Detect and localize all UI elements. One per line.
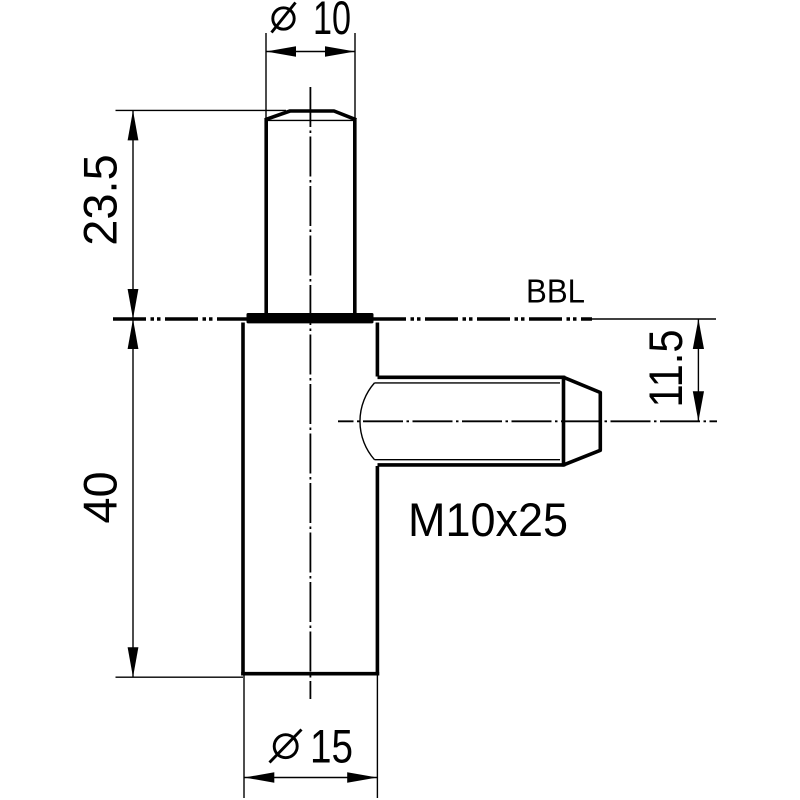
- dimension D15: diameter symbol: [270, 730, 302, 763]
- dimension 40: arrow up at BBL: [128, 319, 139, 349]
- dimension D10: dimension line: [266, 51, 355, 53]
- pin body (top cylinder D10): [266, 119, 355, 314]
- dimension 23.5: arrow up: [128, 110, 139, 140]
- svg-text:40: 40: [74, 471, 127, 523]
- dimension 11.5: dimension line: [697, 319, 699, 421]
- dimension D15: arrow right: [347, 772, 377, 782]
- vertical centerline (pin axis): [309, 87, 311, 699]
- svg-text:23.5: 23.5: [74, 154, 127, 245]
- dimension 23.5: extension line top: [116, 109, 287, 111]
- dimension 40: extension line bottom: [116, 676, 244, 678]
- horizontal centerline (stud axis): [338, 420, 717, 422]
- svg-text:11.5: 11.5: [639, 330, 692, 408]
- dimension D10: extension lines: [266, 33, 355, 120]
- stud tip chamfer: [564, 377, 601, 465]
- dimension D10: diameter symbol: [272, 3, 296, 33]
- BBL phantom line: [113, 317, 716, 321]
- svg-text:M10x25: M10x25: [408, 493, 568, 546]
- stud thread runout arc: [360, 383, 375, 460]
- stud thread root lines: [375, 383, 561, 460]
- svg-text:10: 10: [313, 0, 351, 44]
- dimension D15: arrow left: [244, 772, 274, 782]
- stud thread crest outline (M10x25): [378, 376, 565, 467]
- dimension D15: dimension line: [244, 777, 377, 779]
- svg-text:15: 15: [310, 720, 353, 773]
- dimension D10: arrow left: [266, 46, 296, 56]
- dimension 23.5: arrow down at BBL: [128, 289, 139, 319]
- body (lower cylinder D15): [241, 323, 379, 676]
- flange (collar at BBL): [247, 313, 374, 323]
- dimension D10: arrow right: [325, 46, 355, 56]
- pin top chamfer: [265, 111, 357, 120]
- dimension 11.5: arrow up: [693, 319, 704, 349]
- dimension 23.5 / 40: dimension line: [132, 110, 134, 677]
- dimension 11.5: arrow down: [693, 391, 704, 421]
- dimension 40: arrow down: [128, 647, 139, 677]
- svg-text:BBL: BBL: [526, 273, 585, 310]
- dimension D15: extension lines: [244, 675, 377, 798]
